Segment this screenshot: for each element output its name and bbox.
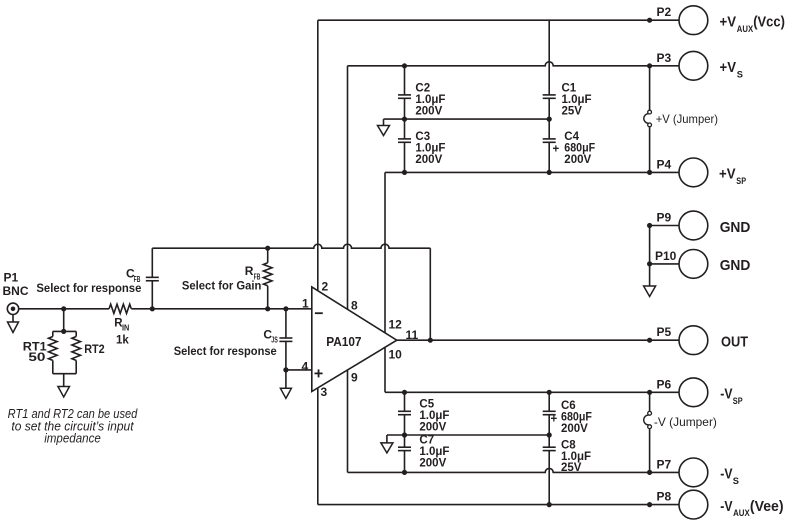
svg-text:Select for response: Select for response (36, 281, 141, 295)
node C3 bottom (402, 170, 407, 175)
label RT2 (84, 344, 105, 356)
svg-text:1.0μF: 1.0μF (562, 94, 592, 106)
connector P6 (679, 378, 708, 407)
svg-text:200V: 200V (419, 422, 446, 434)
svg-text:-V (Jumper): -V (Jumper) (654, 415, 717, 429)
wire pin 4 (286, 369, 312, 371)
svg-text:200V: 200V (415, 154, 442, 166)
svg-text:+V (Jumper): +V (Jumper) (656, 112, 718, 126)
connector P7 (679, 458, 708, 487)
svg-text:680μF: 680μF (561, 411, 592, 423)
svg-text:200V: 200V (561, 423, 588, 435)
connector P3 (679, 51, 708, 80)
pin label 1 (302, 297, 309, 311)
op-amp U1 PA107 (312, 287, 397, 392)
svg-text:+: + (551, 413, 558, 425)
svg-text:R: R (245, 264, 254, 278)
svg-text:25V: 25V (562, 106, 583, 118)
net +Vsp (719, 166, 747, 187)
svg-text:IN: IN (122, 324, 130, 333)
svg-text:P8: P8 (657, 490, 672, 504)
label C7 (419, 435, 449, 470)
svg-text:C3: C3 (415, 131, 430, 143)
svg-text:C6: C6 (561, 400, 576, 412)
svg-text:C7: C7 (419, 435, 434, 447)
label C8 (561, 439, 591, 474)
node C6 C8 mid (547, 432, 552, 437)
net GND P9 (720, 219, 751, 236)
jumper -V (644, 392, 652, 472)
node P2 (647, 18, 652, 23)
wire bottom mid rail (387, 434, 549, 436)
ground below P1 (8, 315, 19, 333)
note RT1 RT2 (8, 407, 139, 445)
resistor RT1 50 (49, 331, 58, 373)
node P7 (647, 470, 652, 475)
svg-text:200V: 200V (415, 106, 442, 118)
label C3 (415, 131, 445, 166)
svg-text:4: 4 (302, 360, 309, 374)
svg-text:50: 50 (28, 352, 45, 364)
label C5 (419, 399, 449, 434)
label C4 (553, 131, 596, 166)
label +V Jumper (656, 112, 718, 126)
svg-text:(Vcc): (Vcc) (753, 14, 785, 31)
wire -Vs rail P7 (348, 468, 680, 472)
svg-text:1.0μF: 1.0μF (419, 410, 449, 422)
svg-text:C8: C8 (561, 439, 576, 451)
svg-text:P6: P6 (657, 377, 672, 391)
pin label 4 (302, 360, 309, 374)
label P4 (657, 157, 672, 171)
svg-text:impedance: impedance (44, 431, 101, 445)
label Select for response 1 (36, 281, 141, 295)
node P9 (647, 223, 652, 228)
svg-text:C5: C5 (419, 399, 434, 411)
svg-text:Select for response: Select for response (174, 344, 277, 358)
capacitor C1 (543, 20, 556, 119)
label CJS (263, 327, 278, 344)
wire -Vaux rail P8 (318, 504, 679, 506)
ground below CJS (280, 370, 291, 398)
node CJS bottom pin4 (283, 367, 288, 372)
node C7 bottom (402, 470, 407, 475)
node C5 C7 mid (402, 432, 407, 437)
svg-text:1.0μF: 1.0μF (415, 94, 445, 106)
label P10 (655, 249, 677, 263)
label P9 (657, 211, 672, 225)
svg-text:C2: C2 (415, 82, 430, 94)
svg-text:C1: C1 (562, 82, 577, 94)
node P8 (647, 502, 652, 507)
svg-text:8: 8 (351, 299, 358, 313)
svg-text:BNC: BNC (3, 284, 29, 298)
connector P5 (679, 326, 708, 355)
wire P9 stub (650, 225, 679, 227)
svg-text:1: 1 (302, 297, 309, 311)
capacitor C2 (398, 66, 411, 119)
svg-text:+V: +V (720, 59, 737, 76)
label P1 BNC (3, 271, 29, 299)
svg-text:+V: +V (720, 14, 737, 31)
node C5 top (402, 390, 407, 395)
svg-text:P9: P9 (657, 211, 672, 225)
node C6 top (547, 390, 552, 395)
svg-text:AUX: AUX (737, 24, 754, 35)
node P3 (647, 63, 652, 68)
net OUT (721, 334, 748, 351)
capacitor C5 (398, 392, 411, 435)
wire pin 10 to -Vsp rail (384, 347, 386, 392)
net +Vaux Vcc (720, 14, 785, 35)
wire pin 12 to +Vsp rail (384, 172, 386, 334)
ground below P10 (644, 264, 656, 297)
wire pin 9 to -Vs rail (347, 368, 349, 472)
svg-text:(Vee): (Vee) (750, 498, 784, 515)
wire +Vaux rail P2 (318, 19, 679, 21)
svg-text:12: 12 (389, 318, 403, 332)
svg-text:S: S (737, 69, 743, 80)
label P3 (657, 51, 672, 65)
node CFB bottom (150, 306, 155, 311)
svg-text:1.0μF: 1.0μF (415, 142, 445, 154)
wire P9-P10 (649, 226, 651, 264)
wire -Vsp rail P6 (385, 391, 679, 393)
pin label 2 (322, 280, 329, 294)
label P6 (657, 377, 672, 391)
svg-text:3: 3 (321, 385, 328, 399)
resistor RIN 1k (109, 304, 131, 313)
capacitor C7 (398, 435, 411, 472)
svg-text:680μF: 680μF (564, 142, 595, 154)
pin label 9 (351, 370, 358, 384)
capacitor CJS (279, 309, 292, 370)
svg-text:200V: 200V (564, 154, 591, 166)
svg-text:OUT: OUT (721, 334, 748, 351)
svg-text:10: 10 (389, 348, 403, 362)
wire feedback top (152, 244, 430, 340)
capacitor C3 (398, 119, 411, 172)
wire RT stem (63, 309, 65, 332)
ground bottom cluster (381, 435, 393, 453)
net -Vs (720, 466, 739, 487)
svg-text:SP: SP (736, 176, 746, 187)
wire pin 8 to +Vs rail (347, 66, 349, 311)
op-amp plus input (315, 369, 323, 377)
svg-text:P5: P5 (657, 325, 672, 339)
svg-text:9: 9 (351, 370, 358, 384)
label C2 (415, 82, 445, 117)
connector P10 (679, 250, 708, 279)
wire top mid rail (384, 118, 550, 120)
svg-text:-V: -V (720, 466, 732, 483)
wire pin 2 to +Vaux rail (317, 20, 319, 292)
pin label 12 (389, 318, 403, 332)
net -Vaux Vee (720, 498, 783, 519)
svg-text:Select for Gain: Select for Gain (182, 278, 262, 292)
label CFB (126, 267, 141, 284)
svg-text:1.0μF: 1.0μF (561, 451, 591, 463)
svg-text:S: S (733, 476, 739, 487)
connector P2 (679, 6, 708, 35)
node P5 (647, 338, 652, 343)
label Select for response 2 (174, 344, 277, 358)
label -V Jumper (654, 415, 717, 429)
wire input from P1 to op-amp pin 1 (19, 308, 312, 310)
pin label 3 (321, 385, 328, 399)
capacitor C4 plus (543, 119, 556, 172)
svg-text:-V: -V (720, 386, 732, 403)
label RT1 50 (23, 341, 48, 364)
wire RT bottom bar (53, 373, 76, 375)
net +Vs (720, 59, 744, 80)
svg-text:+: + (553, 143, 560, 155)
label Select for Gain (182, 278, 262, 292)
wire output to P5 (397, 339, 679, 341)
node C2 C3 mid (402, 117, 407, 122)
node C4 bottom (547, 170, 552, 175)
label C6 (551, 400, 592, 435)
node RFB bottom (265, 306, 270, 311)
op-amp minus input (315, 312, 323, 314)
node input junction to RT1/RT2 (61, 306, 66, 311)
capacitor C8 (543, 435, 556, 505)
label P8 (657, 490, 672, 504)
svg-text:1k: 1k (116, 334, 129, 346)
svg-text:-V: -V (720, 498, 732, 515)
svg-text:P2: P2 (657, 5, 672, 19)
wire pin 3 to -Vaux rail (317, 386, 319, 505)
capacitor CFB (146, 248, 159, 309)
svg-text:P1: P1 (4, 271, 19, 285)
svg-text:P3: P3 (657, 51, 672, 65)
wire P10 stub (650, 263, 679, 265)
wire RT top bar (53, 330, 76, 332)
node C1 C4 mid (547, 117, 552, 122)
node P6 (647, 390, 652, 395)
node C2 top (402, 63, 407, 68)
pin label 10 (389, 348, 403, 362)
svg-text:P7: P7 (657, 457, 672, 471)
resistor RFB (263, 248, 272, 309)
node P4 (647, 170, 652, 175)
connector P9 (679, 211, 708, 240)
svg-text:GND: GND (720, 257, 751, 274)
net -Vsp (720, 386, 743, 407)
pin label 8 (351, 299, 358, 313)
node CJS top (283, 306, 288, 311)
capacitor C6 plus (543, 392, 556, 435)
jumper +V (644, 66, 652, 173)
pin label 11 (406, 328, 419, 342)
ground top cluster (378, 119, 390, 135)
svg-text:RT2: RT2 (84, 344, 105, 356)
net GND P10 (720, 257, 751, 274)
node RFB top (265, 246, 270, 251)
label P7 (657, 457, 672, 471)
svg-text:1.0μF: 1.0μF (419, 446, 449, 458)
label RIN 1k (114, 317, 129, 346)
svg-text:2: 2 (322, 280, 329, 294)
svg-text:P10: P10 (655, 249, 677, 263)
wire +Vs rail P3 (348, 62, 680, 66)
connector P8 (679, 490, 708, 519)
wire +Vsp rail P4 (385, 171, 679, 173)
node RT top (61, 329, 66, 334)
label P2 (657, 5, 672, 19)
svg-text:+V: +V (719, 166, 736, 183)
ground below RT1 RT2 (58, 374, 69, 397)
svg-text:GND: GND (720, 219, 751, 236)
svg-text:P4: P4 (657, 157, 672, 171)
resistor RT2 (72, 331, 81, 373)
node P10 (647, 261, 652, 266)
svg-text:SP: SP (733, 396, 743, 407)
svg-text:200V: 200V (419, 458, 446, 470)
label RFB (245, 264, 261, 281)
node C8 bottom (547, 502, 552, 507)
svg-text:PA107: PA107 (326, 335, 361, 349)
label P5 (657, 325, 672, 339)
connector P4 (679, 158, 708, 187)
connector P1 BNC (7, 303, 18, 314)
label C1 (562, 82, 592, 117)
svg-text:C4: C4 (564, 131, 579, 143)
svg-text:AUX: AUX (733, 508, 750, 519)
node output feedback (428, 338, 433, 343)
